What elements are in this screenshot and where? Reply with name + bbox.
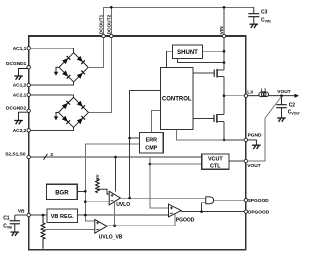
svg-text:VOUT: VOUT [277,89,290,95]
wire SHUNT bottom to VIN trunk [178,59,225,63]
junction trunk/shunt right [223,50,226,53]
junction bus tap [114,156,117,159]
ground C2 [277,118,286,122]
svg-text:L1: L1 [261,87,267,93]
svg-text:DCOUT1: DCOUT1 [99,14,105,34]
svg-text:AC1,1: AC1,1 [13,46,27,52]
diode B1 upper-right [77,56,85,64]
pin AC1,2 [27,83,30,86]
arrow VOUT node [295,94,300,98]
capacitor C1 lead [14,215,16,220]
wire errcmp input 1 [130,137,140,139]
plus minus UVLO [111,194,114,201]
wire inductor to VOUT node [269,95,296,97]
svg-text:AC2,1: AC2,1 [13,93,27,99]
wire VCUT out to VOUT pin [230,160,246,162]
pin VIN [222,34,225,37]
junction VOUT/C2 [280,94,283,97]
wire VOUT sense diagonal [265,97,282,119]
junction UVLO output / control net [128,197,131,200]
wire CONTROL bottom to PGND node [177,130,225,140]
wire B2 minus corner arrow [56,112,59,116]
wire B2 plus corner to DCOUT2 [89,36,112,112]
diode B1 lower-right [77,71,85,79]
pin DCGND2 [27,109,30,112]
svg-text:CMP: CMP [145,145,157,151]
wire PGND external [248,140,257,145]
pin DCOUT1 [102,34,105,37]
wire VCUT input tap [150,157,169,208]
pin LX [244,94,247,97]
wire BGR output [77,190,85,192]
wire S bus [29,156,202,158]
wire LX to inductor [248,95,260,97]
resistor R2 5V [96,179,100,193]
svg-text:AC2,2: AC2,2 [13,128,27,134]
svg-text:3: 3 [50,152,53,158]
wire UVLO output [120,197,205,199]
junction R1/VB [42,214,45,217]
svg-text:VB: VB [18,209,25,215]
wire LX to pin [224,95,246,97]
junction VREF/UVLO input [84,200,87,203]
wire AC1,1 [29,48,74,53]
wire VIN trunk [223,36,225,70]
junction PGND node [223,139,226,142]
wire B1 plus corner to DCOUT1 [88,36,103,67]
wire AC2,1 [29,95,74,98]
diode B2 upper-left [62,101,70,109]
svg-text:C1: C1 [3,215,10,221]
pin AC1,1 [27,47,30,50]
svg-text:SPGOOD: SPGOOD [248,198,270,204]
wire SHUNT right to VIN trunk [203,50,225,52]
capacitor C3 bottom lead [253,17,255,24]
junction VIN/top rail [223,6,226,9]
svg-text:VIN: VIN [219,26,225,35]
block SHUNT [173,45,203,59]
wire R2 to UVLO plus input [97,189,109,194]
svg-text:OPGOOD: OPGOOD [248,210,270,216]
ground DCGND1 [14,76,23,80]
capacitor C1 bottom lead [14,224,16,232]
junction UVLO_VB output [113,224,116,227]
junction PGOOD output [200,210,203,213]
diode B1 upper-left [62,56,70,64]
wire VIN drop from top rail [223,7,225,36]
svg-text:PGOOD: PGOOD [176,218,195,224]
wire SHUNT left to CONTROL [166,51,172,67]
ground C3 [250,24,259,28]
junction DCOUT2/top rail [110,6,113,9]
transistor Q1 [214,69,217,78]
pin DCOUT2 [110,34,113,37]
capacitor C1 plates [10,221,20,224]
svg-text:DCGND2: DCGND2 [6,105,27,111]
svg-text:UVLO_VB: UVLO_VB [99,235,123,241]
wire control feedback net [130,90,161,198]
pin OPGOOD [244,210,247,213]
inductor L1 [259,92,269,97]
svg-text:CONTROL: CONTROL [162,97,192,103]
wire S bus tap to UVLO top [115,157,117,192]
transistor Q1 gate wire [193,72,214,74]
junction VREF/BGR [84,190,87,193]
resistor R1 on VB [41,215,45,249]
junction trunk/shunt bottom [223,61,226,64]
block VB REG [47,209,78,223]
svg-text:BGR: BGR [55,190,69,196]
svg-text:CTL: CTL [210,164,221,170]
transistor Q1 drain/source stubs [217,69,224,71]
svg-text:SHUNT: SHUNT [177,50,198,56]
svg-text:C3: C3 [261,10,268,16]
diode B2 lower-right [77,116,85,124]
wire UVLO_VB out riser to UVLO [114,202,116,226]
diode B1 lower-left [62,70,70,78]
plus minus PGOOD [170,206,173,213]
wire Q2 source to PGND [223,122,225,140]
wire gate output to SPGOOD [214,199,246,201]
arrow B2 ground [54,116,58,120]
svg-text:VCUT: VCUT [208,157,223,163]
wire errcmp to control [152,110,161,132]
pin VOUT [244,159,247,162]
ground DCGND2 [14,121,23,125]
pin VB [27,213,30,216]
comparator PGOOD [169,204,182,217]
wire UVLO_VB output [107,214,175,226]
pin S2,S1,S0 [27,155,30,158]
svg-text:ERR: ERR [146,137,157,143]
wire VCUT input 2 [150,163,202,165]
pin SPGOOD [244,199,247,202]
wire DCGND1 to ground [19,69,28,76]
svg-text:VOUT: VOUT [247,163,260,169]
block CONTROL [161,68,194,130]
wire Q1 source to LX [223,76,225,114]
wire UVLO minus input [85,201,109,203]
wire DCOUT top rail [104,7,254,36]
block BGR [47,184,78,199]
wire DCOUT2 riser [110,7,112,36]
bridge rectifier B1 outline [59,53,88,82]
bus slash [44,154,48,160]
wire DCGND2 to ground [19,112,28,120]
capacitor C2 lead [281,96,283,105]
svg-text:C2: C2 [289,103,296,109]
wire AC2,2 [29,127,74,130]
capacitor C2 plates [276,105,286,108]
diode B2 lower-left [62,116,70,124]
capacitor C3 plates [248,14,259,17]
gate U1 AND [206,197,214,204]
junction LX node [223,94,226,97]
junction VREF/VB [84,214,87,217]
plus minus UVLO_VB [96,221,99,229]
ground PGND [252,145,261,149]
transistor Q2 drain/source stubs [217,113,224,115]
wire B1 minus corner arrow [56,67,59,72]
transistor Q2 [214,114,217,123]
outer IC box [29,36,246,250]
block ERR CMP [140,133,164,154]
svg-text:5V: 5V [95,174,100,179]
bridge rectifier B2 outline [59,97,89,127]
svg-text:AC1,2: AC1,2 [13,83,27,89]
pin DCGND1 [27,66,30,69]
block VCUT CTL [202,154,229,169]
svg-text:VB REG.: VB REG. [51,214,74,220]
arrow B1 ground [54,72,58,76]
svg-text:PGND: PGND [248,132,262,138]
capacitor C2 bottom lead [281,108,283,118]
pin AC2,1 [27,93,30,96]
junction errcmp input [128,137,131,140]
wire PGND node to pin [224,139,246,141]
diode B2 upper-right [77,101,85,109]
wire VREF vertical net [85,144,139,221]
wire PGOOD output [181,211,246,212]
junction VCUT tap [149,163,152,166]
capacitor C3 lead [253,7,255,13]
svg-text:S2,S1,S0: S2,S1,S0 [5,151,26,157]
transistor Q2 gate wire [193,117,214,119]
pin AC2,2 [27,129,30,132]
svg-text:DCOUT2: DCOUT2 [106,14,112,34]
wire AC1,2 [29,82,74,85]
wire R1 tap to UVLO_VB [45,228,95,230]
ground C1 [11,232,20,236]
svg-text:UVLO: UVLO [116,202,130,208]
wire VB rail [15,214,169,216]
svg-text:LX: LX [247,90,254,96]
comparator UVLO_VB [95,219,107,233]
svg-text:DCGND1: DCGND1 [6,61,27,67]
pin PGND [244,138,247,141]
wire PGOOD out to AND gate [202,203,206,212]
comparator UVLO [109,191,120,205]
